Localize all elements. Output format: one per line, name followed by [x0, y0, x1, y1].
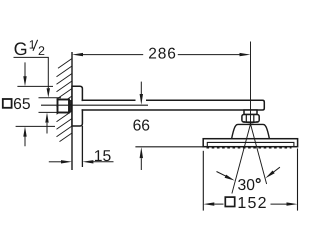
nut bottom arc [243, 121, 257, 122]
thread extension lines [39, 97, 62, 99]
svg-text:1: 1 [29, 37, 36, 51]
washer under arm [244, 110, 257, 115]
pipe centerline [41, 104, 148, 106]
thread lower arrow [46, 123, 48, 134]
dim 66 lower arrow [140, 158, 142, 170]
G 1/2 underline and leader [14, 57, 49, 88]
svg-text:65: 65 [13, 96, 31, 113]
thread lines [70, 100, 71, 112]
nozzle dotted face [207, 147, 292, 149]
svg-text:286: 286 [148, 45, 177, 62]
dim 66 upper arrow [140, 82, 142, 95]
escutcheon flange [72, 86, 82, 126]
svg-text:G: G [14, 39, 28, 59]
shower head outer [203, 139, 297, 147]
svg-text:152: 152 [237, 195, 267, 212]
dim 65 square symbol [3, 99, 12, 108]
dim 152 line [214, 203, 286, 205]
vertical centerline [250, 42, 252, 125]
swivel nut [242, 115, 259, 123]
thread nut behind wall [58, 100, 70, 113]
30 deg leader arrows [217, 172, 229, 178]
dim 152 extension lines [202, 151, 204, 211]
svg-text:15: 15 [94, 148, 112, 165]
wall face line [71, 52, 73, 170]
nut facets [245, 115, 247, 122]
dim 286 arrows [72, 53, 83, 56]
shower arm [82, 101, 265, 109]
shower head inner lip [207, 142, 294, 146]
dim 65 flange extension lines [17, 85, 53, 87]
dim 152 arrows [203, 202, 214, 205]
dim 286 line [83, 54, 240, 56]
flange front extension line [81, 126, 83, 167]
svg-text:66: 66 [133, 118, 151, 135]
spray angle lines 30deg [232, 124, 251, 194]
dim 65 outer arrows [24, 62, 26, 76]
neck trapezoid [232, 124, 270, 138]
dim 66 extension line to head [135, 146, 203, 148]
svg-text:30: 30 [237, 177, 255, 194]
svg-text:2: 2 [38, 44, 45, 58]
dim 15 [49, 161, 114, 163]
dim 152 square symbol [225, 197, 234, 206]
wall hatching [57, 59, 73, 142]
